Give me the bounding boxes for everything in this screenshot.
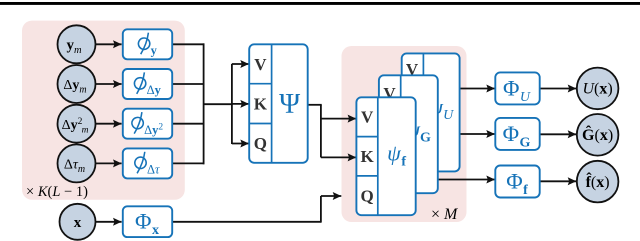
svg-text:U(x): U(x) [582,81,612,98]
box Phi_U [495,72,539,104]
node dy2_m [58,105,96,143]
svg-text:V: V [361,108,374,127]
wire: Phi_G to G(x) circle (arrow) [540,133,577,135]
wire: Phi_U to U(x) circle (arrow) [540,88,577,90]
psi_G column divider [400,75,402,193]
svg-text:Ψ: Ψ [279,89,300,120]
box Psi [249,44,308,163]
svg-text:Δy: Δy [147,83,162,97]
wire: bus2 to Psi V (arrow) [232,63,249,65]
wire: bus2 to Psi Q (arrow) [232,143,249,145]
svg-text:K: K [254,95,268,114]
node dy_m [58,65,96,103]
node U(x) [577,68,619,110]
wire: phi_y box to bus1 [172,43,204,45]
wire: bus2 to Psi K (arrow) [232,103,249,105]
wire: y_m circle to phi_y box (arrow) [95,43,122,45]
box Phi_x [123,206,172,237]
node x [60,204,96,240]
psi_f K/Q divider [356,175,377,177]
svg-text:x: x [74,215,82,231]
top rule [0,2,640,5]
svg-text:m: m [82,125,89,135]
svg-text:× M: × M [431,206,459,223]
wire: psi_U to Phi_U (arrow) [460,88,495,90]
wire: phi_dy box to bus1 [172,83,204,85]
wire: phi_dtau box to bus1 [172,162,204,164]
panel: attention-stack group (pink, x M) [342,46,467,222]
psi_U column divider [422,53,424,171]
svg-text:Q: Q [254,134,267,153]
psi_f V/K divider [356,136,377,138]
svg-text:Ĝ(x): Ĝ(x) [582,124,613,144]
wire: bus1 to bus2 [204,103,233,105]
box phi_dtau [123,148,172,178]
wire: phi_dy2 box to bus1 [172,123,204,125]
wire: riser to psi_f Q (arrow, stops at panel edge) [321,195,341,197]
Psi column divider [271,44,273,163]
Psi V/K divider [249,83,271,85]
box phi_dy [123,69,172,99]
svg-text:f̂(x): f̂(x) [586,172,610,191]
box psi_U (back of stack) [402,53,460,171]
svg-text:y: y [151,44,158,58]
wire: bus3 to psi_f K (arrow) [321,156,356,158]
bus3 vertical fanout to psi_f [320,105,322,158]
wire: bus3 to psi_f V (arrow) [321,118,356,120]
wire: dtau_m circle to phi_dtau box (arrow) [95,162,122,164]
wire: psi_G to Phi_G (arrow) [438,133,495,135]
box psi_f (front of stack) [356,97,415,215]
Psi K/Q divider [249,123,271,125]
box psi_G (middle of stack) [379,75,438,193]
box phi_dy2 [123,109,172,139]
wire: Phi_x output horizontal [172,221,321,223]
svg-text:Q: Q [360,187,373,206]
node f(x) [577,161,619,203]
panel: lag-features group (pink, x K(L-1)) [22,21,185,200]
wire: dy2_m circle to phi_dy2 box (arrow) [95,123,122,125]
bus1 vertical collector [203,43,205,164]
box Phi_f [495,166,539,198]
svg-text:V: V [254,55,267,74]
box phi_y [123,29,172,59]
svg-text:K: K [360,147,374,166]
wire: Phi_x output vertical riser [320,196,322,223]
wire: psi_f to Phi_f (arrow) [416,179,495,181]
wire: dy_m circle to phi_dy box (arrow) [95,83,122,85]
bus2 vertical fanout to Psi [231,64,233,144]
wire: Phi_f to f(x) circle (arrow) [540,180,577,182]
psi_f column divider [377,97,379,215]
wire: x circle to Phi_x box (arrow) [96,221,122,223]
node y_m [58,25,96,63]
box Phi_G [495,118,539,150]
wire: Psi output to bus3 [308,104,322,106]
svg-text:Δτ: Δτ [147,163,160,177]
svg-text:× K(L − 1): × K(L − 1) [26,184,88,200]
node G(x) [577,114,619,156]
node dtau_m [58,144,96,182]
